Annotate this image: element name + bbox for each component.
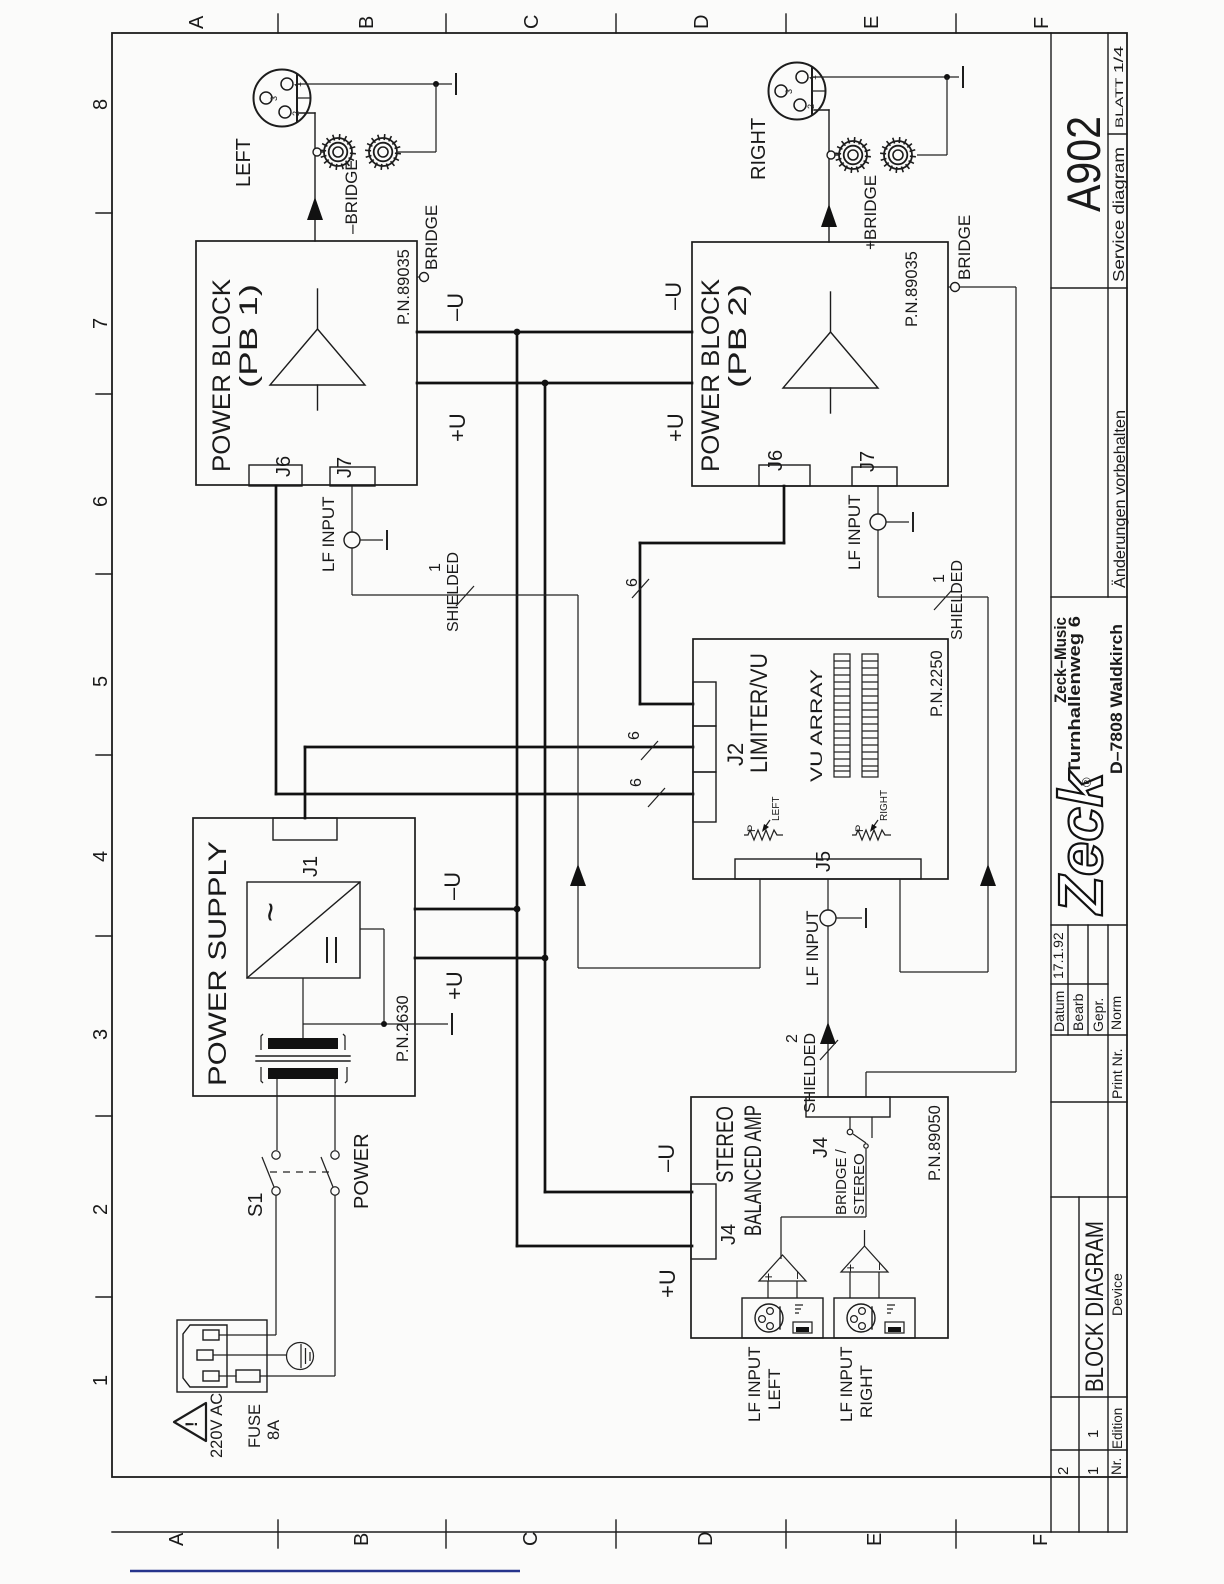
svg-text:A902: A902 bbox=[1057, 116, 1110, 212]
svg-text:B: B bbox=[356, 16, 378, 29]
svg-text:LEFT: LEFT bbox=[771, 797, 782, 821]
svg-text:D–7808 Waldkirch: D–7808 Waldkirch bbox=[1107, 624, 1126, 774]
wire +U bus PB1 to PB2 bbox=[417, 382, 692, 385]
svg-text:Device: Device bbox=[1109, 1273, 1125, 1316]
svg-text:A: A bbox=[186, 15, 208, 29]
svg-text:Turnhallenweg 6: Turnhallenweg 6 bbox=[1065, 616, 1084, 774]
svg-text:S1: S1 bbox=[245, 1193, 267, 1217]
connector J7 PB2 bbox=[852, 467, 897, 486]
AC inlet connector outline bbox=[183, 1325, 227, 1387]
node +U rail at PB bus bbox=[542, 380, 549, 387]
ground chassis left output bbox=[455, 74, 457, 94]
svg-text:Norm: Norm bbox=[1108, 996, 1124, 1030]
switch S1 coupler dashed bbox=[270, 1171, 329, 1173]
title block grid bbox=[1051, 33, 1127, 1532]
zone ticks top bbox=[278, 14, 956, 33]
svg-text:Gepr.: Gepr. bbox=[1090, 998, 1106, 1032]
XLR connector RIGHT bbox=[769, 63, 826, 120]
inlet pin 2 earth bbox=[197, 1350, 213, 1360]
wire PB1 output up to XLR bbox=[299, 113, 315, 241]
wire LF right J7 PB2 path bbox=[878, 486, 988, 972]
svg-text:2: 2 bbox=[90, 1204, 112, 1215]
svg-text:+U: +U bbox=[442, 971, 467, 1000]
wire PS -U output bbox=[415, 908, 517, 911]
wire J5 to stereo amp J4 bbox=[827, 879, 829, 1097]
svg-text:SHIELDED: SHIELDED bbox=[802, 1033, 819, 1113]
svg-text:1: 1 bbox=[1085, 1430, 1102, 1438]
wire acdc to transformer bbox=[302, 978, 304, 1038]
svg-text:+: + bbox=[760, 1273, 776, 1281]
ground chassis power supply bbox=[451, 1014, 453, 1034]
svg-text:J1: J1 bbox=[300, 856, 322, 877]
XLR connector LEFT bbox=[254, 70, 311, 127]
svg-text:A: A bbox=[166, 1532, 188, 1546]
wire bus J1 PS to limiter J2 bbox=[305, 747, 693, 818]
svg-text:F: F bbox=[1031, 17, 1053, 29]
wire pin2 to earth symbol bbox=[213, 1354, 286, 1356]
svg-text:LF INPUT: LF INPUT bbox=[745, 1346, 764, 1422]
potentiometer P LEFT bbox=[744, 820, 783, 840]
svg-text:1: 1 bbox=[931, 574, 948, 583]
svg-text:–U: –U bbox=[654, 1144, 679, 1172]
XLR input module left bbox=[742, 1298, 823, 1338]
svg-text:+: + bbox=[842, 1264, 858, 1272]
svg-text:J4: J4 bbox=[810, 1137, 832, 1158]
svg-text:BRIDGE /: BRIDGE / bbox=[833, 1148, 850, 1215]
svg-text:Edition: Edition bbox=[1110, 1408, 1125, 1449]
svg-text:D: D bbox=[691, 15, 713, 29]
svg-text:J6: J6 bbox=[765, 450, 787, 471]
connector J1 bbox=[273, 818, 337, 840]
op-amp right channel bbox=[841, 1230, 888, 1298]
blue pen mark bbox=[130, 1570, 520, 1573]
wire left opamp output to switch bbox=[781, 1217, 866, 1259]
wire XLR left pin1 to ground bbox=[297, 83, 452, 85]
svg-text:D: D bbox=[695, 1532, 717, 1546]
zone ticks bottom bbox=[278, 1520, 956, 1548]
switch S1 pole 2 bbox=[321, 1151, 339, 1195]
svg-text:+U: +U bbox=[663, 413, 688, 442]
XLR input module right bbox=[834, 1298, 915, 1338]
wire primary lead left bbox=[276, 1079, 278, 1150]
wire acdc dc tap bbox=[360, 929, 384, 1024]
svg-text:FUSE: FUSE bbox=[246, 1404, 264, 1448]
svg-text:SHIELDED: SHIELDED bbox=[949, 560, 966, 640]
wire PS +U output bbox=[415, 957, 545, 960]
slash 2 shielded bbox=[820, 1040, 838, 1060]
power supply box bbox=[193, 818, 415, 1096]
svg-text:BRIDGE: BRIDGE bbox=[955, 215, 974, 280]
svg-text:LIMITER/VU: LIMITER/VU bbox=[746, 653, 773, 773]
svg-text:RIGHT: RIGHT bbox=[879, 790, 890, 821]
svg-text:7: 7 bbox=[90, 318, 112, 329]
svg-text:P.N.89050: P.N.89050 bbox=[926, 1105, 944, 1181]
bridge terminal PB1 bbox=[417, 273, 429, 282]
binding post right second bbox=[881, 138, 915, 172]
svg-text:+U: +U bbox=[445, 413, 470, 442]
wire S1 pole2 to fuse bbox=[260, 1195, 335, 1376]
arrow on LF left wire bbox=[570, 864, 586, 886]
wire bridge PB2 to stereo amp bbox=[866, 287, 1016, 1097]
svg-text:3: 3 bbox=[784, 89, 794, 94]
rail +U vertical bbox=[544, 383, 547, 1192]
wire XLR right pin1 to ground bbox=[812, 76, 959, 78]
LF input circle PB2 bbox=[870, 514, 886, 530]
op-amp triangle PB2 bbox=[783, 292, 878, 413]
connector J2 segment 2 bbox=[693, 726, 716, 772]
transformer core bbox=[256, 1056, 350, 1061]
svg-text:J4: J4 bbox=[718, 1224, 740, 1245]
svg-text:1: 1 bbox=[90, 1375, 112, 1386]
bus slash J6 PB1 bbox=[648, 788, 665, 807]
switch S1 pole 1 bbox=[262, 1151, 280, 1195]
connector J5 bbox=[735, 859, 921, 879]
switch bridge/stereo bbox=[847, 1117, 872, 1217]
inlet pin 1 bbox=[203, 1330, 219, 1340]
svg-text:4: 4 bbox=[90, 851, 112, 862]
svg-text:P.N.2250: P.N.2250 bbox=[928, 650, 946, 717]
node junction right output ground bbox=[944, 74, 950, 80]
node PS -U bbox=[514, 906, 521, 913]
stub pin3 right XLR bbox=[812, 90, 825, 92]
svg-text:5: 5 bbox=[90, 676, 112, 687]
connector J7 PB1 bbox=[330, 467, 375, 486]
svg-text:17.1.92: 17.1.92 bbox=[1050, 932, 1066, 979]
svg-text:E: E bbox=[864, 1533, 886, 1546]
svg-text:SHIELDED: SHIELDED bbox=[445, 552, 462, 632]
border frame bbox=[112, 33, 1127, 1532]
svg-text:VU ARRAY: VU ARRAY bbox=[807, 669, 826, 782]
AC inlet outer box bbox=[177, 1320, 267, 1392]
svg-text:–: – bbox=[788, 1271, 804, 1279]
svg-text:STEREO: STEREO bbox=[851, 1153, 868, 1215]
warning triangle bbox=[174, 1403, 206, 1441]
connector J6 PB2 bbox=[759, 465, 810, 486]
svg-text:POWER: POWER bbox=[351, 1133, 373, 1209]
svg-text:1: 1 bbox=[1085, 1467, 1102, 1475]
svg-text:BLOCK DIAGRAM: BLOCK DIAGRAM bbox=[1081, 1221, 1109, 1392]
svg-text:®: ® bbox=[1079, 777, 1094, 787]
svg-text:8: 8 bbox=[90, 99, 112, 110]
svg-text:P: P bbox=[854, 825, 866, 832]
transformer T1 primary winding bbox=[261, 1067, 347, 1083]
svg-text:P.N.89035: P.N.89035 bbox=[903, 251, 921, 327]
bridge terminal PB2 bbox=[948, 283, 960, 292]
op-amp left channel bbox=[759, 1255, 806, 1298]
wire bus J6 PB2 to limiter J2 bbox=[640, 486, 784, 704]
svg-text:J2: J2 bbox=[723, 743, 748, 766]
svg-text:–U: –U bbox=[661, 282, 686, 310]
svg-text:6: 6 bbox=[90, 496, 112, 507]
node junction left output ground bbox=[433, 81, 439, 87]
connector J4 left bbox=[691, 1184, 716, 1259]
svg-text:–U: –U bbox=[440, 872, 465, 900]
wire PB2 output up to XLR bbox=[814, 110, 829, 242]
power block PB1 box bbox=[196, 241, 417, 485]
wire -U feed to stereo amp bbox=[545, 1191, 692, 1194]
svg-text:J6: J6 bbox=[273, 456, 295, 477]
inlet pin 3 bbox=[203, 1371, 219, 1381]
svg-text:BALANCED AMP: BALANCED AMP bbox=[740, 1105, 767, 1236]
stereo amp box bbox=[691, 1097, 948, 1338]
svg-text:LEFT: LEFT bbox=[233, 138, 255, 187]
zone numbers left 8-1 bbox=[90, 99, 112, 1386]
svg-text:~: ~ bbox=[252, 902, 290, 922]
svg-text:6: 6 bbox=[626, 731, 643, 740]
svg-text:+U: +U bbox=[655, 1269, 680, 1298]
wire primary lead right bbox=[334, 1079, 336, 1150]
terminal circle on PB1 output bbox=[313, 148, 321, 156]
svg-text:J7: J7 bbox=[334, 457, 356, 478]
slash 1 shielded right bbox=[934, 590, 952, 610]
ground at LF input PB2 bbox=[886, 512, 913, 532]
VU bar left bbox=[834, 654, 850, 777]
svg-text:Zeck: Zeck bbox=[1047, 769, 1116, 916]
svg-text:E: E bbox=[861, 16, 883, 29]
svg-text:8A: 8A bbox=[265, 1420, 283, 1440]
svg-text:220V AC: 220V AC bbox=[208, 1393, 226, 1458]
binding post right +BRIDGE bbox=[835, 138, 870, 172]
node -U rail at PB bus bbox=[514, 329, 521, 336]
bus slash J1 bbox=[641, 741, 658, 760]
wire center tap to ground bbox=[303, 1023, 448, 1025]
svg-text:Änderungen vorbehalten: Änderungen vorbehalten bbox=[1112, 410, 1129, 588]
svg-text:+BRIDGE: +BRIDGE bbox=[861, 175, 880, 250]
limiter VU box bbox=[693, 639, 948, 879]
VU bar right bbox=[862, 654, 878, 777]
connector J6 PB1 bbox=[249, 465, 302, 486]
svg-text:2: 2 bbox=[1055, 1467, 1072, 1475]
svg-text:P.N.2630: P.N.2630 bbox=[394, 995, 412, 1062]
svg-text:3: 3 bbox=[90, 1029, 112, 1040]
wire +U feed to stereo amp bbox=[517, 1245, 692, 1248]
svg-text:!: ! bbox=[182, 1421, 201, 1427]
potentiometer P RIGHT bbox=[852, 820, 891, 840]
svg-text:–BRIDGE: –BRIDGE bbox=[342, 159, 361, 234]
svg-text:LEFT: LEFT bbox=[765, 1368, 784, 1410]
svg-text:Nr.: Nr. bbox=[1109, 1458, 1124, 1475]
connector J2 segment 1 bbox=[693, 682, 716, 726]
svg-text:C: C bbox=[520, 1532, 542, 1546]
svg-text:B: B bbox=[351, 1533, 373, 1546]
binding post left second bbox=[366, 135, 400, 169]
svg-text:P.N.89035: P.N.89035 bbox=[395, 249, 413, 325]
svg-text:–: – bbox=[870, 1262, 886, 1270]
wire left post to ground node bbox=[398, 84, 436, 152]
label DC bars bbox=[327, 938, 336, 962]
wire -U bus PB1 to PB2 bbox=[417, 331, 692, 334]
svg-text:BRIDGE: BRIDGE bbox=[422, 205, 441, 270]
svg-text:RIGHT: RIGHT bbox=[857, 1365, 876, 1418]
zone letters bottom A-F bbox=[166, 1532, 1052, 1546]
rail -U vertical bbox=[516, 332, 519, 1246]
gnd lift symbols left module bbox=[793, 1305, 812, 1333]
svg-text:F: F bbox=[1030, 1534, 1052, 1546]
svg-text:J7: J7 bbox=[857, 451, 879, 472]
svg-text:LF INPUT: LF INPUT bbox=[319, 496, 338, 572]
LF input circle limiter bbox=[820, 910, 836, 926]
earth symbol circle bbox=[287, 1343, 314, 1370]
stub pin3 left XLR bbox=[297, 97, 310, 99]
svg-text:1: 1 bbox=[427, 563, 444, 572]
zone ticks left bbox=[96, 213, 112, 1297]
svg-text:(PB 1): (PB 1) bbox=[235, 284, 263, 388]
ground at LF input limiter bbox=[836, 908, 866, 928]
gnd lift symbols right module bbox=[885, 1305, 904, 1333]
svg-text:POWER BLOCK: POWER BLOCK bbox=[697, 279, 725, 472]
svg-text:2: 2 bbox=[784, 1034, 801, 1043]
arrow on PB1 output wire bbox=[307, 197, 323, 220]
op-amp triangle PB1 bbox=[270, 289, 365, 410]
wire bus J6 PB1 to limiter J2 bbox=[276, 486, 693, 794]
svg-text:POWER BLOCK: POWER BLOCK bbox=[208, 279, 236, 472]
svg-text:POWER SUPPLY: POWER SUPPLY bbox=[204, 841, 232, 1086]
arrow on J5 wire bbox=[820, 1022, 836, 1044]
svg-text:LF INPUT: LF INPUT bbox=[803, 910, 822, 986]
svg-text:LF INPUT: LF INPUT bbox=[845, 494, 864, 570]
connector J4 top bbox=[806, 1097, 890, 1117]
svg-text:J5: J5 bbox=[813, 851, 835, 872]
wire S1 pole1 to inlet pin1 bbox=[219, 1195, 276, 1335]
zone letters top A-F bbox=[186, 15, 1053, 29]
svg-text:STEREO: STEREO bbox=[712, 1106, 739, 1183]
transformer T1 secondary winding bbox=[261, 1034, 345, 1050]
wire LF left J7 PB1 path bbox=[352, 486, 760, 968]
connector J2 segment 3 bbox=[693, 772, 716, 822]
svg-text:Service diagram: Service diagram bbox=[1111, 147, 1128, 282]
svg-text:Print Nr.: Print Nr. bbox=[1109, 1048, 1125, 1099]
svg-text:C: C bbox=[521, 15, 543, 29]
LF input circle PB1 bbox=[344, 532, 360, 548]
bus slash J6 PB2 bbox=[632, 579, 649, 598]
arrow on LF right wire bbox=[980, 864, 996, 886]
terminal circle on PB2 output bbox=[827, 151, 835, 159]
svg-text:Bearb: Bearb bbox=[1070, 993, 1086, 1031]
svg-text:2: 2 bbox=[806, 104, 816, 109]
node PS +U bbox=[542, 955, 549, 962]
fuse F1 bbox=[219, 1370, 260, 1382]
svg-text:–U: –U bbox=[443, 293, 468, 321]
svg-text:Datum: Datum bbox=[1051, 991, 1067, 1032]
ground chassis right output bbox=[962, 67, 964, 87]
slash 1 shielded left bbox=[456, 586, 474, 606]
svg-text:BLATT 1/4: BLATT 1/4 bbox=[1111, 46, 1126, 128]
svg-text:LF INPUT: LF INPUT bbox=[837, 1346, 856, 1422]
svg-text:(PB 2): (PB 2) bbox=[724, 284, 752, 388]
power block PB2 box bbox=[692, 242, 948, 486]
svg-text:RIGHT: RIGHT bbox=[748, 118, 770, 180]
svg-text:3: 3 bbox=[269, 96, 279, 101]
svg-text:6: 6 bbox=[628, 778, 645, 787]
svg-text:6: 6 bbox=[624, 578, 641, 587]
ground at LF input PB1 bbox=[360, 530, 387, 550]
AC-DC converter bbox=[247, 882, 360, 978]
binding post left -BRIDGE bbox=[321, 135, 355, 169]
wire right post to ground node bbox=[917, 77, 947, 155]
svg-text:P: P bbox=[746, 825, 758, 832]
node junction tap bbox=[381, 1021, 387, 1027]
arrow on PB2 output wire bbox=[821, 204, 837, 227]
